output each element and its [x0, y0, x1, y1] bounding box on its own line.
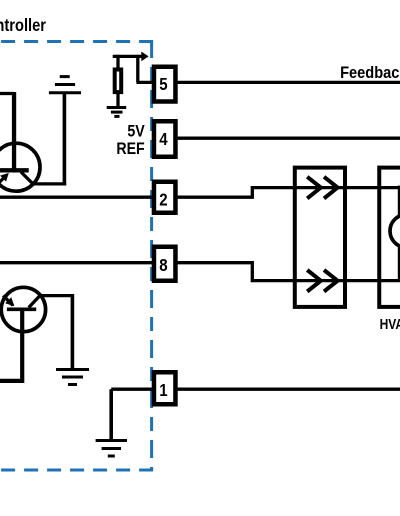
svg-text:ntroller: ntroller — [0, 16, 46, 35]
svg-text:HVAC: HVAC — [380, 316, 400, 333]
svg-text:4: 4 — [159, 130, 167, 149]
svg-text:5V: 5V — [127, 122, 145, 140]
svg-text:REF: REF — [116, 140, 144, 158]
svg-text:1: 1 — [159, 381, 167, 400]
svg-text:8: 8 — [159, 256, 167, 275]
svg-text:2: 2 — [159, 190, 167, 209]
svg-text:Feedback: Feedback — [340, 64, 400, 82]
svg-text:5: 5 — [159, 75, 167, 94]
